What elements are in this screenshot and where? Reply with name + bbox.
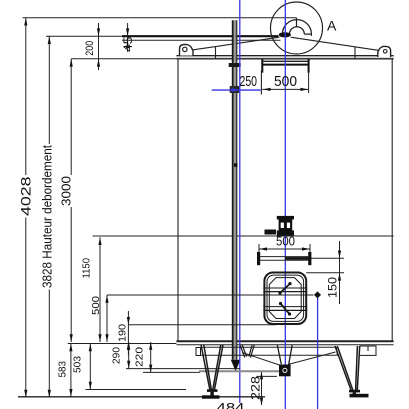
190 arrows (outside) xyxy=(127,317,130,325)
arrowheads xyxy=(24,18,341,406)
svg-text:484: 484 xyxy=(217,400,245,409)
mid 500 arrows xyxy=(259,247,267,250)
central pipe interior shading xyxy=(234,20,236,359)
rear-left leg stub xyxy=(240,345,254,358)
gray ext line to outlet xyxy=(199,370,279,372)
svg-text:3828 Hauteur debordement: 3828 Hauteur debordement xyxy=(40,145,55,288)
150 arrows (outside) xyxy=(338,251,341,259)
150 ref line top (tube level) xyxy=(311,257,344,259)
290 extension line xyxy=(126,368,240,370)
150 ref line bottom (manhole top) xyxy=(306,272,344,274)
190 dim line xyxy=(127,311,129,355)
3828 extension line to pipe xyxy=(46,35,122,37)
white masks under big left texts xyxy=(20,175,33,218)
250 blue dimension xyxy=(212,88,261,92)
3828 dim line xyxy=(48,36,50,397)
eave top line xyxy=(176,55,393,57)
central pipe right wall xyxy=(236,20,238,359)
220 extension line xyxy=(143,371,200,373)
front-left leg xyxy=(196,345,223,390)
1150 dim line xyxy=(99,237,101,342)
detail circle A xyxy=(271,2,323,54)
eave extension to dims xyxy=(71,58,176,60)
290 dim line xyxy=(128,342,130,369)
190 extension line xyxy=(128,324,276,326)
svg-text:A: A xyxy=(327,18,337,34)
290 arrows xyxy=(127,342,130,350)
3000 dim line xyxy=(70,59,72,342)
front-right leg xyxy=(335,346,376,390)
roof rafter tick right xyxy=(354,47,356,59)
svg-text:500: 500 xyxy=(274,73,297,90)
vent pipe bottom edge xyxy=(122,39,281,41)
vent flange ellipse xyxy=(279,33,290,37)
ground line (583 ref) xyxy=(18,396,265,398)
gooseneck right end closure xyxy=(304,34,311,36)
bottom outlet xyxy=(277,345,281,364)
tank right wall xyxy=(391,59,393,341)
200 arrows (outside) xyxy=(97,28,100,36)
bottom extension from tank bottom xyxy=(68,343,177,345)
svg-text:150: 150 xyxy=(326,277,340,298)
pipe weld dot xyxy=(234,163,238,167)
svg-text:228: 228 xyxy=(249,376,263,400)
top vent pipe (overflow) thick top edge xyxy=(122,35,278,37)
svg-text:290: 290 xyxy=(111,347,123,364)
roof 500 port neck left wall xyxy=(261,59,263,73)
583 dim line xyxy=(70,344,72,397)
500 left arrows xyxy=(105,295,108,303)
500 extension line to diamond xyxy=(107,294,314,296)
1150 arrows xyxy=(98,237,101,245)
tube black segment xyxy=(285,257,311,260)
bottom cone edge right xyxy=(288,352,336,365)
svg-text:1150: 1150 xyxy=(81,258,93,279)
svg-text:220: 220 xyxy=(134,347,146,367)
roof 500 port neck right wall xyxy=(308,59,310,73)
roof rafter tick left xyxy=(215,47,217,59)
pipe collar at roof xyxy=(229,63,241,67)
side valve on seam: left black rect xyxy=(265,230,277,235)
200 dim line xyxy=(98,23,100,70)
rear support beam xyxy=(201,346,337,348)
lifting lug right xyxy=(378,46,391,57)
228 arrows xyxy=(260,372,263,380)
side nozzle diamond xyxy=(314,291,321,298)
top 500 arrows (inside pointing out) xyxy=(263,88,271,91)
wall seam line with 1150 extension xyxy=(93,235,394,237)
roof slope right xyxy=(291,37,382,51)
3000 arrows xyxy=(70,59,73,67)
mid 500 ext ticks xyxy=(258,244,260,253)
eave bottom line xyxy=(176,58,393,60)
svg-text:200: 200 xyxy=(84,41,96,56)
central pipe left wall xyxy=(232,20,234,359)
tank left wall xyxy=(177,59,179,341)
4028 extension line to vent stem xyxy=(23,17,297,19)
roof slope left xyxy=(189,37,279,50)
blue centerline pipe xyxy=(239,0,241,403)
svg-text:190: 190 xyxy=(117,324,129,342)
lifting lug left xyxy=(180,45,194,56)
side valve body xyxy=(277,216,294,236)
150 dim line xyxy=(339,241,341,304)
handles xyxy=(280,284,290,293)
svg-text:45: 45 xyxy=(123,37,135,53)
4028 dim line xyxy=(25,18,27,398)
583 arrows xyxy=(69,344,72,352)
pipe bottom cone xyxy=(231,360,241,372)
blue centerline side nozzle xyxy=(317,294,319,409)
45 dim line xyxy=(127,23,129,52)
500 left dim line xyxy=(106,295,108,342)
svg-text:4028: 4028 xyxy=(18,176,34,216)
agitator tube (mid 500) caps xyxy=(257,252,260,265)
tank bottom band top xyxy=(176,340,393,342)
svg-text:3000: 3000 xyxy=(59,176,74,206)
503 dim line xyxy=(89,344,91,390)
manhole xyxy=(263,273,307,325)
mid 500 dim line xyxy=(259,248,311,250)
pipe collar lower xyxy=(230,86,240,93)
vent stem xyxy=(296,18,298,27)
220 arrows xyxy=(149,342,152,350)
gooseneck vent inner arc xyxy=(290,27,305,34)
220 dim line xyxy=(150,342,152,372)
eave band fill xyxy=(176,56,393,59)
503 arrows xyxy=(89,344,92,352)
4028 arrows xyxy=(24,18,27,26)
228 dim line xyxy=(261,372,263,406)
gooseneck vent outer arc xyxy=(282,20,311,35)
blue centerline tank xyxy=(284,0,286,409)
3828 arrows xyxy=(48,36,51,44)
svg-text:250: 250 xyxy=(240,73,258,90)
svg-text:500: 500 xyxy=(90,296,102,315)
45 arrows (outside) xyxy=(126,28,129,36)
svg-text:503: 503 xyxy=(72,356,84,373)
ground line upper (503 ref) xyxy=(86,389,187,391)
228 top ref line xyxy=(257,375,278,377)
tank bottom band bottom xyxy=(176,344,393,346)
top 500 dim line xyxy=(262,88,308,90)
bottom cone edge left xyxy=(242,353,283,367)
svg-text:500: 500 xyxy=(276,234,295,249)
neck flange lines xyxy=(262,60,308,62)
tube lines xyxy=(260,256,308,258)
svg-text:583: 583 xyxy=(57,361,69,378)
